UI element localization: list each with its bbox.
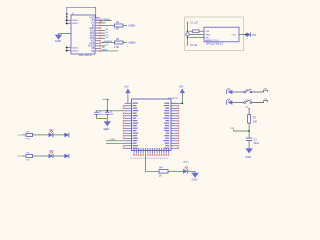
svg-text:1.5K: 1.5K: [114, 46, 119, 49]
svg-text:USBDM: USBDM: [104, 41, 112, 43]
svg-text:XTAL2: XTAL2: [110, 138, 116, 141]
svg-text:USB-1: USB-1: [72, 20, 79, 22]
svg-text:P00P01P02P03P04P05: P00P01P02P03P04P05: [131, 158, 169, 160]
svg-text:MINI USB 5P: MINI USB 5P: [79, 55, 93, 57]
svg-text:USBDM: USBDM: [103, 19, 111, 21]
svg-text:GND: GND: [245, 155, 251, 159]
svg-text:USBD-: USBD-: [128, 24, 136, 27]
svg-text:USBD+: USBD+: [128, 41, 137, 44]
svg-text:GND: GND: [192, 177, 198, 181]
svg-text:STC89C52: STC89C52: [168, 98, 179, 100]
svg-text:USB-2: USB-2: [72, 23, 79, 25]
svg-text:OUT: OUT: [232, 35, 237, 37]
svg-text:+5V: +5V: [179, 85, 184, 89]
svg-text:SS: SS: [91, 51, 95, 53]
svg-text:USB-4: USB-4: [72, 47, 79, 49]
svg-text:10uF: 10uF: [99, 114, 104, 116]
svg-text:UGND: UGND: [101, 49, 108, 51]
svg-text:P10: P10: [18, 135, 21, 137]
svg-text:LED1: LED1: [49, 129, 55, 131]
svg-text:C1 1uF: C1 1uF: [191, 23, 199, 25]
svg-text:1K: 1K: [159, 175, 162, 178]
svg-text:P32: P32: [264, 89, 267, 91]
svg-text:10K: 10K: [253, 120, 258, 123]
svg-text:C2 1uF: C2 1uF: [190, 45, 198, 47]
svg-text:VIN: VIN: [206, 31, 210, 33]
svg-text:+5V: +5V: [124, 85, 129, 89]
svg-text:1.5K: 1.5K: [114, 28, 119, 31]
svg-text:P11: P11: [18, 156, 21, 158]
svg-text:SPX1117M3-3.3: SPX1117M3-3.3: [206, 42, 224, 45]
svg-text:GND: GND: [55, 39, 61, 43]
svg-text:3V3: 3V3: [252, 34, 257, 37]
svg-text:P33: P33: [264, 99, 267, 101]
svg-text:GND: GND: [206, 34, 211, 36]
svg-text:10uF: 10uF: [254, 142, 260, 145]
svg-text:LED3: LED3: [183, 162, 189, 164]
svg-text:USB-5: USB-5: [72, 50, 79, 52]
svg-text:+5V: +5V: [102, 99, 106, 101]
svg-text:Y1: Y1: [105, 130, 107, 132]
svg-text:LED2: LED2: [49, 150, 55, 152]
svg-text:EN: EN: [206, 37, 209, 39]
